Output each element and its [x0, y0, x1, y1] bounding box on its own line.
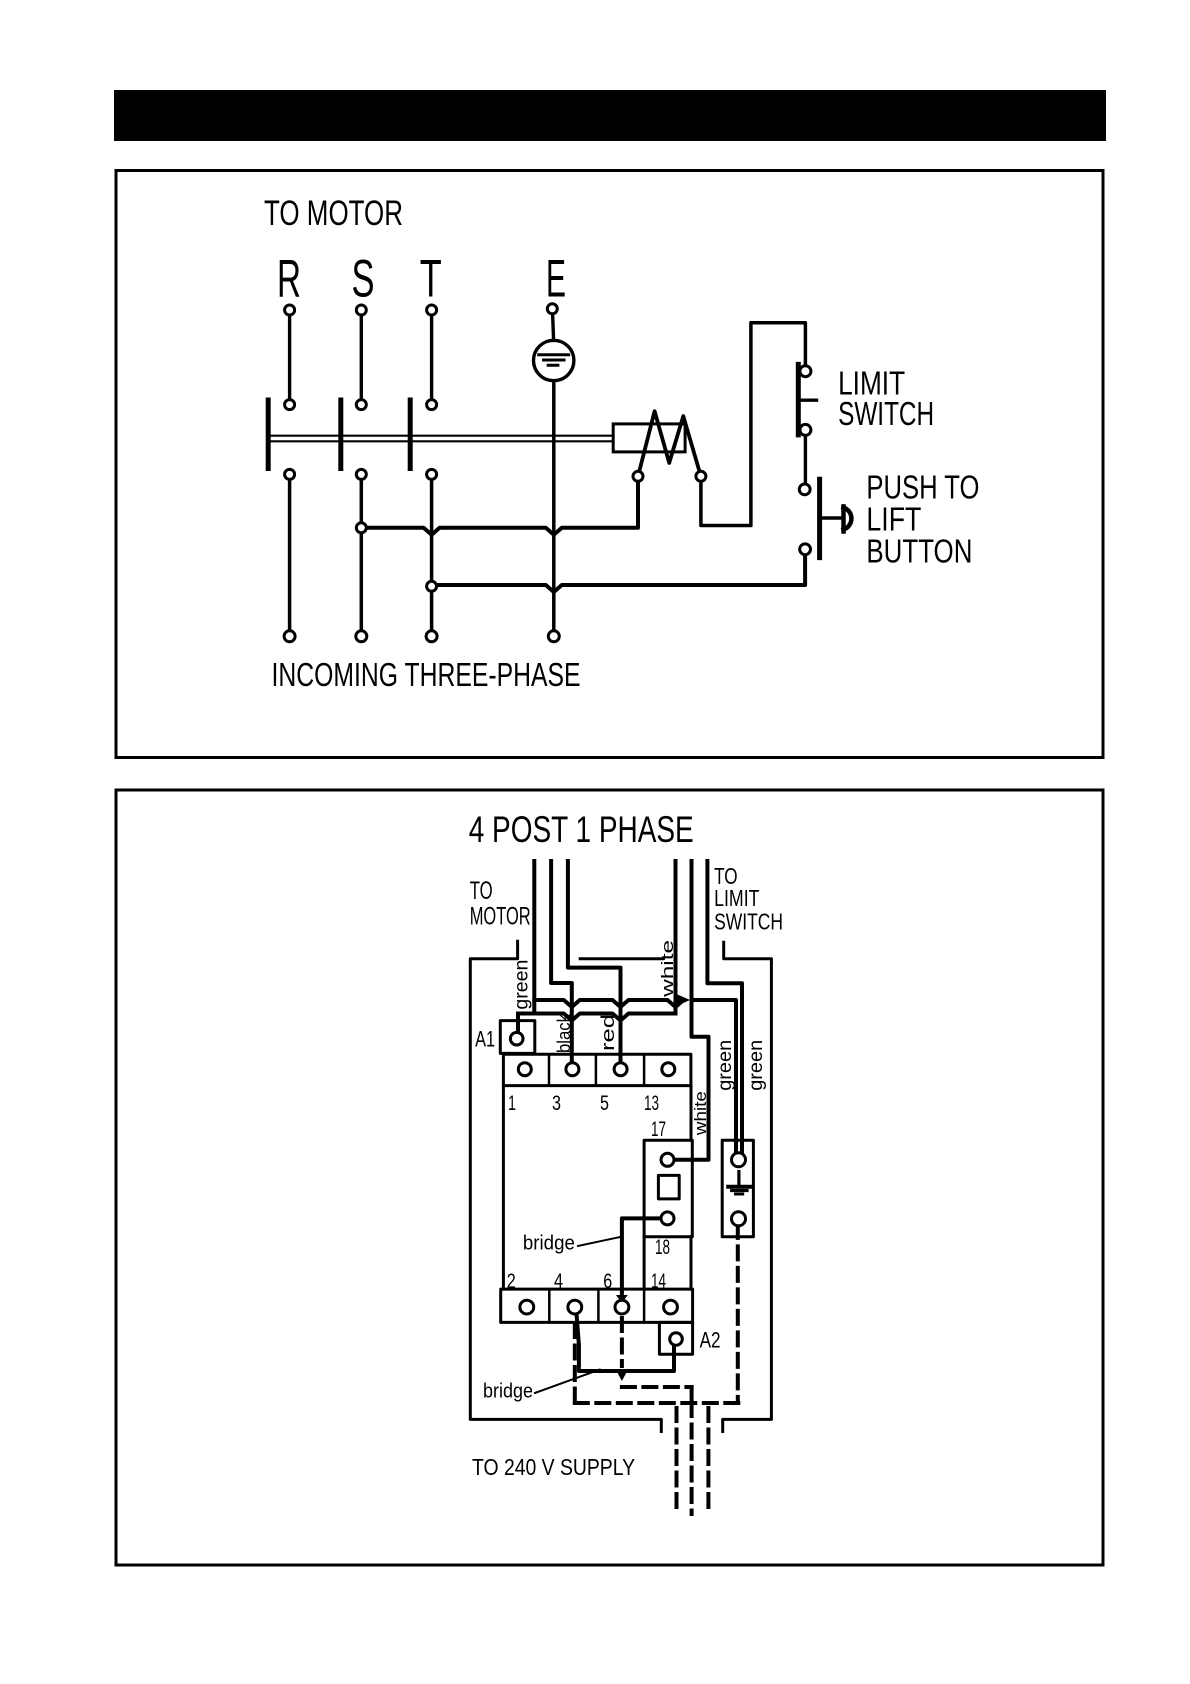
svg-text:S: S: [352, 250, 375, 309]
svg-text:SWITCH: SWITCH: [838, 395, 934, 432]
svg-text:white: white: [658, 940, 677, 998]
svg-text:4: 4: [554, 1270, 563, 1293]
svg-text:E: E: [546, 250, 566, 309]
svg-text:TO: TO: [470, 877, 493, 905]
svg-text:bridge: bridge: [523, 1233, 575, 1255]
svg-text:4 POST 1 PHASE: 4 POST 1 PHASE: [469, 809, 694, 850]
svg-text:bridge: bridge: [483, 1381, 533, 1403]
svg-text:6: 6: [603, 1270, 612, 1293]
svg-text:T: T: [420, 250, 442, 309]
svg-text:A2: A2: [700, 1327, 721, 1352]
svg-text:17: 17: [651, 1118, 666, 1141]
svg-text:INCOMING THREE-PHASE: INCOMING THREE-PHASE: [272, 656, 581, 693]
svg-text:14: 14: [651, 1270, 666, 1293]
svg-text:1: 1: [508, 1092, 516, 1115]
svg-text:green: green: [512, 960, 533, 1010]
svg-text:TO MOTOR: TO MOTOR: [264, 194, 403, 233]
svg-text:MOTOR: MOTOR: [470, 902, 531, 930]
svg-text:13: 13: [644, 1092, 659, 1115]
svg-text:red: red: [598, 1014, 618, 1051]
svg-text:BUTTON: BUTTON: [866, 532, 972, 569]
svg-text:LIMIT: LIMIT: [714, 885, 759, 911]
svg-text:black: black: [554, 1013, 574, 1053]
svg-text:white: white: [691, 1091, 710, 1136]
svg-text:green: green: [746, 1040, 767, 1091]
svg-text:2: 2: [507, 1270, 516, 1293]
svg-text:3: 3: [552, 1092, 561, 1115]
svg-text:A1: A1: [475, 1027, 495, 1052]
svg-text:SWITCH: SWITCH: [714, 908, 783, 934]
svg-text:green: green: [715, 1040, 736, 1091]
svg-text:18: 18: [655, 1236, 670, 1259]
svg-text:R: R: [277, 250, 301, 309]
svg-text:5: 5: [600, 1092, 609, 1115]
svg-text:TO 240 V SUPPLY: TO 240 V SUPPLY: [472, 1454, 635, 1480]
